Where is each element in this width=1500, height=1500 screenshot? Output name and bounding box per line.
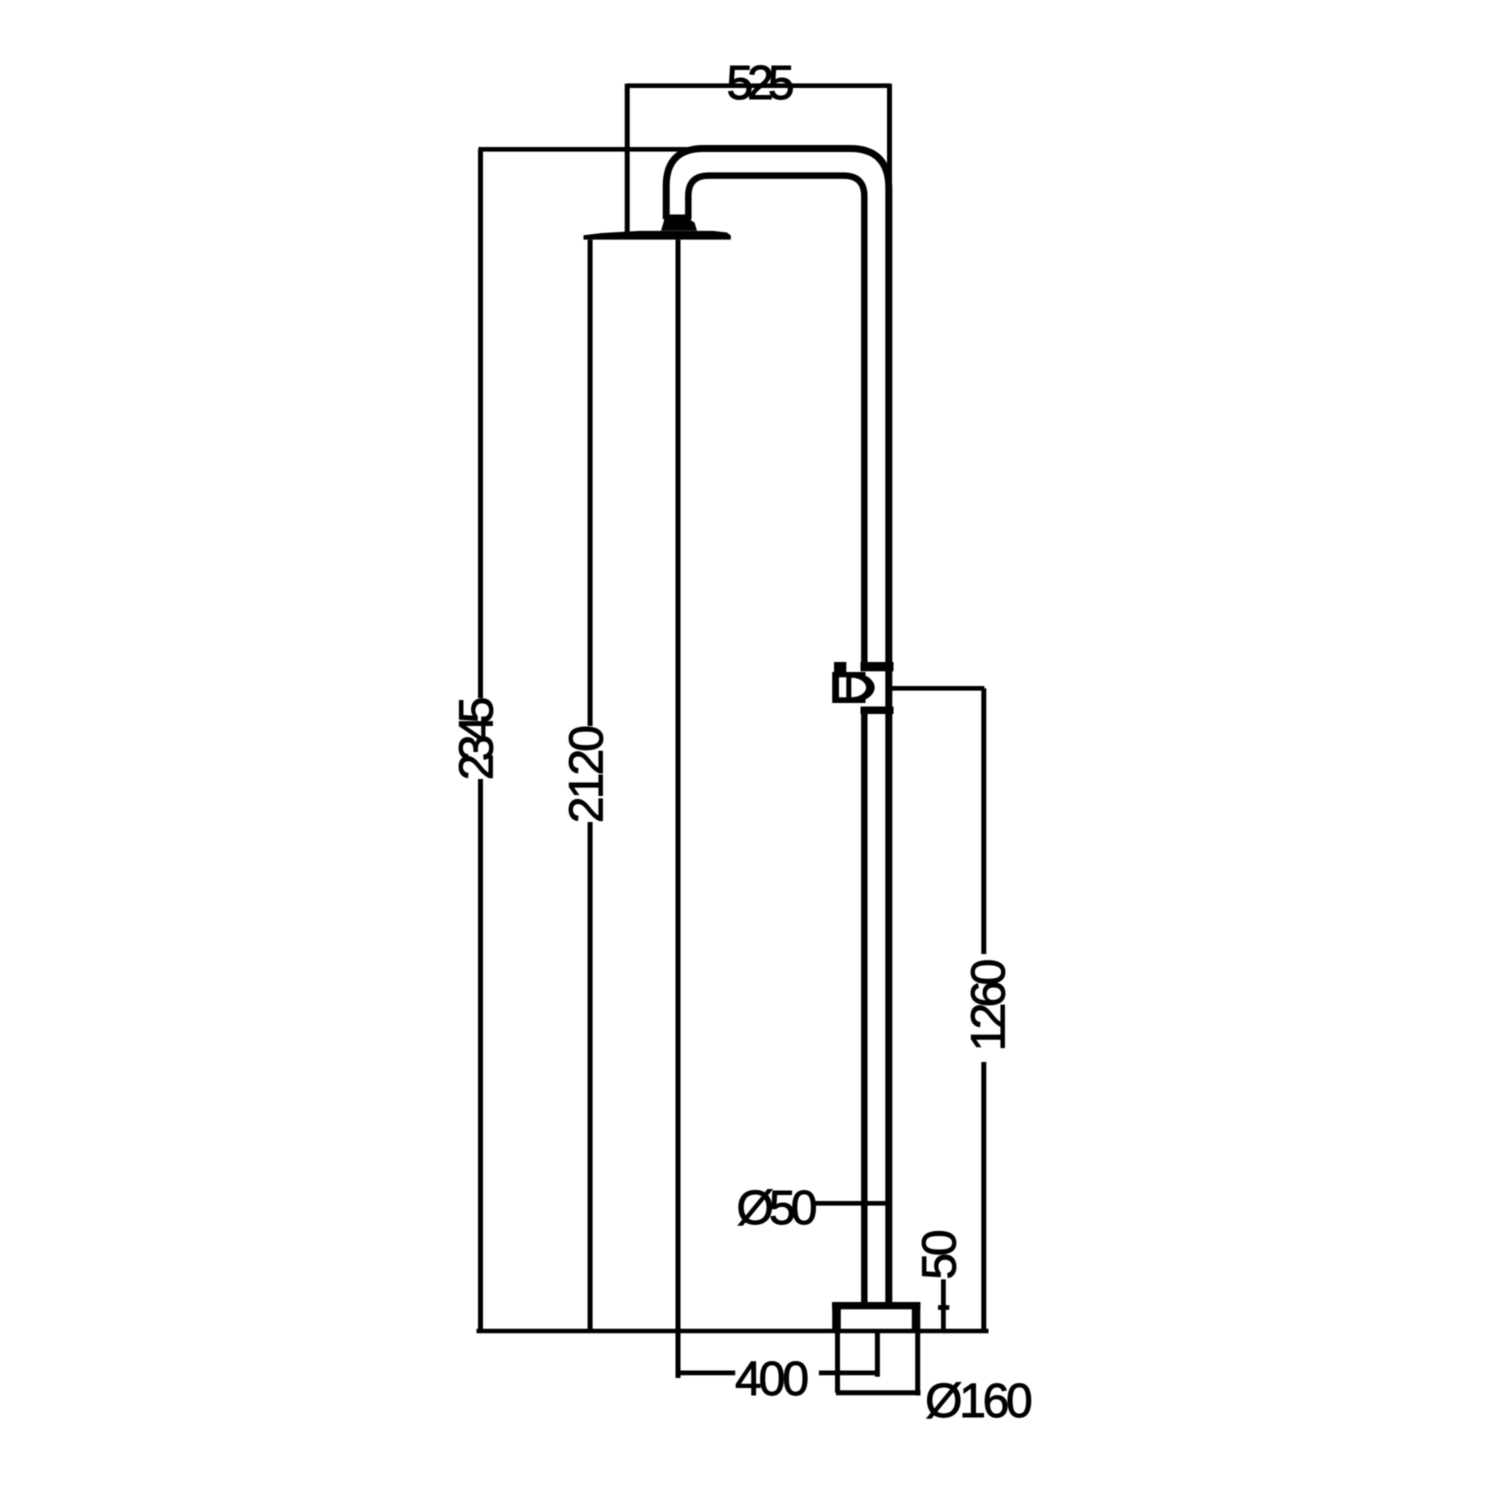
node floor line [477, 1329, 989, 1334]
dimension 2345 line upper [478, 149, 483, 698]
dimension 2345 line lower [478, 779, 483, 1329]
node shower head stem [661, 215, 697, 231]
node hand shower bracket body [832, 672, 865, 703]
dimension 400 line right segment [819, 1371, 878, 1376]
svg-text:Ø50: Ø50 [736, 1182, 815, 1235]
dimension 2345 top extension [478, 147, 704, 152]
node underfloor flange box [836, 1331, 921, 1396]
svg-text:Ø160: Ø160 [925, 1375, 1031, 1428]
node base right wall [912, 1302, 921, 1331]
label 1260 [963, 960, 1016, 1051]
svg-text:2120: 2120 [561, 727, 614, 823]
node bracket hook outer arc [852, 673, 874, 703]
node hand shower bracket top band [861, 662, 894, 671]
svg-text:2345: 2345 [450, 698, 503, 780]
node bracket hook inner white [851, 678, 866, 698]
node base left wall [832, 1302, 841, 1331]
wire shower pipe outer profile (leg left edge, arm top, riser right edge) [666, 149, 889, 1304]
dimension 400 line left segment [678, 1371, 735, 1376]
wire extension line riser centre to 400 dim [875, 1331, 880, 1377]
node bracket cutout slot [839, 677, 846, 697]
node shower head disc [584, 231, 731, 240]
node base plate [832, 1302, 920, 1309]
svg-text:1260: 1260 [963, 960, 1016, 1051]
dimension 50 line [941, 1279, 946, 1329]
dimension 400 left extension from head centre [676, 240, 681, 1378]
node hand shower bracket tab [834, 662, 846, 672]
svg-text:50: 50 [913, 1231, 966, 1279]
dimension 525 right extension [887, 84, 892, 190]
dimension 2120 line upper [588, 240, 593, 726]
label 50 [913, 1231, 966, 1279]
wire shower pipe inner profile (leg right edge, arm bottom, riser left edge) [688, 176, 864, 662]
label 2345 [450, 698, 503, 780]
dimension diameter 50 leader [815, 1201, 889, 1206]
dimension 525 left extension [625, 84, 630, 235]
dimension 525 line [627, 83, 889, 88]
dimension 50 tick [938, 1305, 949, 1310]
dimension 1260 line upper [981, 688, 986, 954]
wire riser left edge below bracket [861, 714, 868, 1303]
dimension 1260 extension [892, 686, 984, 691]
svg-text:400: 400 [735, 1353, 807, 1406]
dimension 1260 line lower [981, 1062, 986, 1329]
node hand shower bracket bottom band [861, 707, 894, 715]
dimension 2120 line lower [588, 822, 593, 1329]
svg-text:525: 525 [726, 57, 792, 110]
label 2120 [561, 727, 614, 823]
